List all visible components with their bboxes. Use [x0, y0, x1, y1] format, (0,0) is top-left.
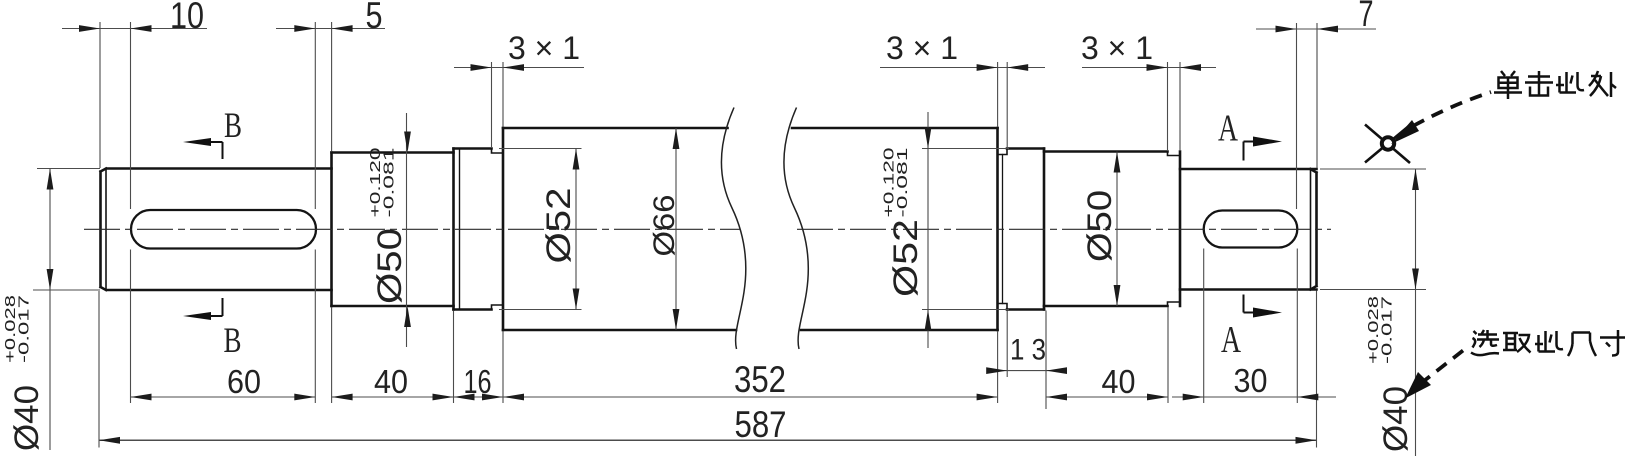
dim line Ø50 left (vertical, outside arrows) [406, 113, 408, 347]
arrows dim 40 left (inside) [332, 394, 353, 401]
ext line groove C left bottom (dim 40R) [1167, 307, 1169, 403]
ext line groove B right (dim 3x1 mid) [1006, 62, 1008, 147]
arrows Ø40 right (inside, vertical) [1412, 169, 1419, 190]
ext line Ø40L bottom [33, 289, 100, 291]
dim line 3x1 right [1082, 67, 1216, 69]
label Ø40 right with tolerance [1365, 296, 1415, 452]
dim line Ø66 (vertical) [675, 128, 677, 330]
svg-text:Ø66: Ø66 [648, 195, 681, 257]
shoulder face Ø52/Ø50 right [1043, 149, 1046, 310]
svg-text:7: 7 [1359, 0, 1374, 34]
dim line 13 [988, 370, 1066, 372]
ext line Ø40L top [37, 168, 100, 170]
dim line 3x1 mid [880, 67, 1045, 69]
dim line 16 [454, 396, 504, 398]
dim line 60 [131, 396, 316, 398]
shaft section Ø40 right: top and bottom edges [1180, 169, 1317, 290]
arrows Ø50 left (outside, vertical) [404, 132, 411, 153]
ext line Ø50L face bottom (dim 40) [331, 307, 333, 403]
section marker B top: arrow + bracket [183, 105, 242, 159]
arrows dim 3x1 right (outside) [1147, 64, 1168, 71]
shaft section Ø52 left: top and bottom edges [454, 149, 492, 310]
ext line Ø50/Ø52 step bottom (dim 40/16) [453, 311, 455, 404]
ext line Ø66 right face bottom (dim 352) [997, 331, 999, 403]
section marker B bottom: arrow + bracket [183, 298, 242, 360]
svg-text:-0.017: -0.017 [1379, 296, 1396, 364]
text: click here (单击此处) [1494, 71, 1616, 99]
shaft section Ø66: top and bottom edges (interrupted by break) [503, 128, 998, 330]
dim line 7 [1256, 28, 1376, 30]
arrows dim 10 (outside) [79, 25, 100, 32]
dim line Ø50 right (vertical) [1116, 152, 1118, 307]
section marker A top: bracket + arrow [1218, 108, 1282, 161]
ext line Ø52R top (horizontal) [922, 148, 1009, 150]
relief groove 3x1 (right): walls and bottom [1168, 152, 1181, 307]
arrows dim 587 (inside) [99, 437, 120, 444]
dim line 40 right [1046, 396, 1168, 398]
chamfer line Ø52 left [459, 149, 461, 310]
break line wavy right [784, 108, 808, 350]
arrows dim 13 (outside) [986, 367, 1007, 374]
arrows dim 3x1 left (outside) [471, 64, 492, 71]
ext line keyway-right end (dim 7) [1296, 23, 1298, 209]
dim line 10 [62, 28, 207, 30]
label Ø50 left with tolerance [367, 148, 409, 305]
ext line Ø52R face bottom (dim 13/40) [1045, 311, 1047, 410]
shoulder face Ø50/Ø40 right [1179, 152, 1182, 307]
ext line keyway-right end bottom (dim 30) [1296, 249, 1298, 404]
arrows Ø52 left (inside, vertical) [573, 149, 580, 170]
svg-text:Ø52: Ø52 [540, 188, 578, 264]
keyway right (stadium slot) [1204, 211, 1298, 248]
label Ø40 left with tolerance [2, 295, 46, 451]
arrows dim 5 (outside) [294, 25, 315, 32]
svg-text:A: A [1221, 319, 1241, 361]
ext line Ø52R bottom (horizontal) [922, 309, 1009, 311]
dim line 3x1 left [454, 67, 584, 69]
ext line shaft right edge bottom (dim 587/30 tail) [1316, 291, 1318, 448]
svg-text:Ø40: Ø40 [8, 385, 46, 451]
X mark with circle [1365, 125, 1410, 164]
shoulder face Ø66/Ø52 right [996, 128, 999, 330]
relief groove 3x1 (middle): bottom face lines [998, 149, 1008, 310]
ext line keyway-left start bottom (dim 60) [130, 250, 132, 404]
dim line 587 [99, 439, 1317, 441]
chamfer line right end [1310, 169, 1312, 290]
dim line 40 left [332, 396, 454, 398]
svg-text:40: 40 [1102, 363, 1136, 400]
svg-text:60: 60 [227, 363, 261, 400]
shaft section Ø52 right: top and bottom edges [1007, 149, 1044, 310]
shoulder face Ø50/Ø52 [452, 149, 455, 310]
svg-text:587: 587 [735, 404, 787, 445]
svg-text:Ø52: Ø52 [887, 219, 925, 297]
svg-text:40: 40 [374, 363, 408, 400]
ext line Ø40R shoulder (dim 3x1 right) [1179, 62, 1181, 150]
text: select this dimension (选取此尺寸) [1471, 330, 1625, 356]
groove middle wall line [1002, 155, 1004, 304]
svg-text:3 × 1: 3 × 1 [1081, 30, 1153, 66]
arrows dim 40 right (inside) [1046, 394, 1067, 401]
label Ø52 right with tolerance [881, 148, 926, 298]
shaft section Ø50 left: top and bottom edges [332, 153, 454, 307]
section marker A bottom: bracket + arrow [1221, 295, 1282, 362]
svg-text:30: 30 [1234, 362, 1268, 399]
dim line 30 [1172, 396, 1336, 398]
ext line Ø66 left face bottom (dim 16/352) [502, 331, 504, 403]
ext line Ø40R top [1320, 168, 1426, 170]
ext line Ø50L face (dim 5/40) [331, 22, 333, 151]
svg-text:-0.081: -0.081 [381, 148, 398, 218]
shaft section Ø40 left: end face with chamfer [101, 169, 107, 291]
ext line Ø66 right face top (dim 3x1 mid) [997, 62, 999, 127]
svg-text:-0.017: -0.017 [16, 295, 33, 363]
shaft right end face with chamfer [1311, 169, 1317, 290]
dim line Ø40 right (vertical) [1415, 169, 1417, 456]
ext line Ø52L top (horizontal) [499, 148, 582, 150]
svg-text:B: B [224, 105, 242, 145]
arrows dim 16 (inside) [454, 394, 475, 401]
arrows Ø52 right (outside, vertical) [925, 128, 932, 149]
arrowheads [47, 25, 1419, 444]
ext line groove C left (dim 3x1 right) [1167, 62, 1169, 150]
ext line shaft right edge top (dim 7) [1316, 23, 1318, 168]
arrows dim 60 (inside) [131, 394, 152, 401]
ext line Ø66 left face (dim 3x1/16/352) [502, 62, 504, 127]
svg-text:3 × 1: 3 × 1 [508, 30, 580, 66]
svg-text:-0.081: -0.081 [894, 148, 911, 218]
shoulder face Ø40/Ø50 [330, 153, 333, 307]
svg-text:Ø50: Ø50 [1081, 190, 1119, 262]
keyway left (stadium slot) [131, 210, 316, 249]
arrows Ø40 left (inside, vertical) [47, 169, 54, 190]
centerline (dash-dot) [84, 228, 1331, 230]
leader arrow (dashed) to Ø40 text [1405, 349, 1465, 399]
dim line 5 [276, 28, 385, 30]
svg-text:Ø50: Ø50 [371, 228, 409, 304]
ext line shaft left edge top (dim 10) [99, 22, 101, 168]
svg-text:352: 352 [734, 359, 786, 400]
svg-text:A: A [1218, 108, 1238, 150]
svg-text:10: 10 [170, 0, 204, 36]
svg-text:B: B [224, 320, 242, 360]
ext line keyway-left end bottom (dim 60) [314, 250, 316, 404]
svg-text:5: 5 [366, 0, 383, 36]
ext line keyway-right start bottom (dim 30) [1203, 249, 1205, 404]
arrows dim 352 (inside) [503, 394, 524, 401]
shoulder face Ø52/Ø66 left [502, 128, 505, 330]
relief groove 3x1 (left): walls and bottom [492, 149, 504, 310]
break line wavy left [721, 108, 745, 350]
shaft section Ø50 right: top and bottom edges [1044, 152, 1168, 307]
dim line Ø52 left (vertical) [575, 149, 577, 310]
arrows Ø50 right (inside, vertical) [1114, 152, 1121, 173]
arrows Ø66 (inside, vertical) [673, 128, 680, 149]
ext line keyway-left end (dim 5/60) [314, 22, 316, 209]
chamfer line left end [105, 169, 107, 291]
dim line Ø40 left (vertical) [49, 169, 51, 451]
svg-text:3 × 1: 3 × 1 [886, 30, 958, 66]
ext line Ø40R bottom [1320, 289, 1426, 291]
shaft section Ø40 left: top and bottom edges [107, 169, 332, 291]
ext line keyway-left start (dim 10/60) [130, 22, 132, 209]
leader arrow (dashed) to X mark [1391, 92, 1491, 144]
ext line Ø52L bottom (horizontal) [499, 309, 582, 311]
arrows dim 7 (outside) [1276, 26, 1297, 33]
ext line groove B right bottom (dim 13) [1006, 311, 1008, 378]
ext line shaft left edge bottom (dim 587) [98, 291, 100, 448]
ext line groove A left (dim 3x1) [491, 62, 493, 147]
dim line 352 [503, 396, 998, 398]
arrows dim 3x1 mid (outside) [977, 64, 998, 71]
dim line Ø52 right (vertical) [927, 112, 929, 348]
arrows dim 30 (outside) [1183, 394, 1204, 401]
svg-text:1 3: 1 3 [1010, 334, 1046, 367]
svg-text:16: 16 [464, 363, 492, 400]
